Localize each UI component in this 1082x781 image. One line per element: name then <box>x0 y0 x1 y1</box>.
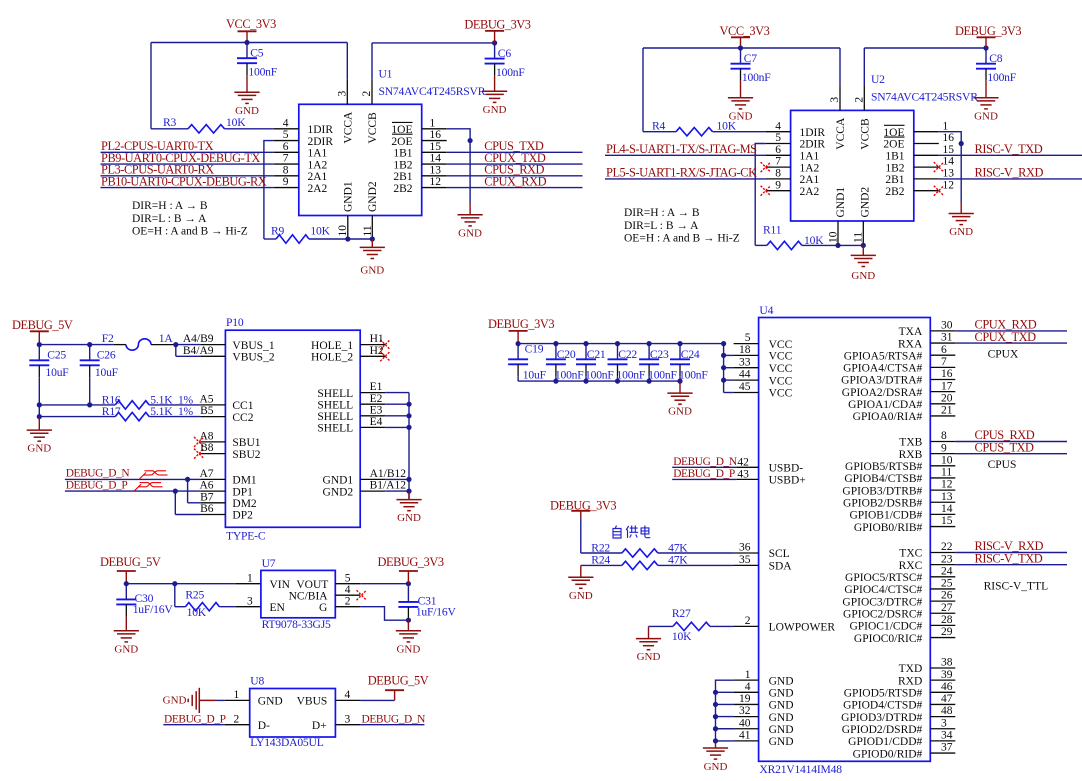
svg-text:D+: D+ <box>312 720 327 732</box>
capacitor C6 ground symbol <box>482 91 507 102</box>
resistor R3 <box>188 125 225 133</box>
svg-text:4: 4 <box>283 117 289 129</box>
wire VCC bus to stub <box>724 392 734 394</box>
wire VCC bus to stub <box>724 379 734 381</box>
svg-text:11: 11 <box>941 467 952 479</box>
pin 10 GND1 stub (U2) <box>837 221 839 245</box>
svg-text:GND: GND <box>163 695 187 707</box>
wire USBD- <box>672 466 736 468</box>
wire VCC_3V3 horizontal (U2) <box>643 47 840 49</box>
U1 right pin stub row5 <box>422 187 447 189</box>
pin 3 VCCA stub <box>346 79 348 104</box>
svg-text:CPUX: CPUX <box>988 349 1019 361</box>
svg-text:GND: GND <box>704 761 728 773</box>
svg-text:47: 47 <box>941 693 953 705</box>
svg-text:2: 2 <box>854 97 866 103</box>
GND lead (OE) <box>469 203 471 215</box>
svg-text:GND1: GND1 <box>835 187 847 218</box>
svg-text:2OE: 2OE <box>883 139 904 151</box>
svg-text:10K: 10K <box>187 606 207 619</box>
wire DM1 short <box>188 478 201 480</box>
svg-text:DEBUG_D_P: DEBUG_D_P <box>164 713 226 725</box>
svg-text:EN: EN <box>270 602 286 614</box>
power port DEBUG_3V3 (U1) <box>464 18 530 43</box>
no-connect pin 7 (U2) <box>761 162 771 172</box>
svg-text:RXB: RXB <box>899 449 923 461</box>
svg-text:GND1: GND1 <box>342 181 354 212</box>
svg-text:PB10-UART0-CPUX-DEBUG-RX: PB10-UART0-CPUX-DEBUG-RX <box>101 174 267 188</box>
svg-text:GPIOC0/RIC#: GPIOC0/RIC# <box>854 633 923 645</box>
svg-text:C21: C21 <box>587 348 606 361</box>
pin A1/B12 stub <box>360 478 385 480</box>
svg-text:100nF: 100nF <box>585 368 614 381</box>
svg-text:C6: C6 <box>498 47 512 60</box>
wire VCC_3V3 horizontal <box>151 42 347 44</box>
svg-text:23: 23 <box>941 553 953 565</box>
svg-text:GND: GND <box>668 406 692 418</box>
svg-text:C8: C8 <box>989 52 1003 65</box>
wire R16 to CC1 <box>149 404 200 406</box>
svg-text:H2: H2 <box>370 345 384 357</box>
svg-text:VCC: VCC <box>769 375 793 387</box>
svg-text:31: 31 <box>941 332 953 344</box>
capacitor C24 <box>670 344 708 382</box>
svg-text:C24: C24 <box>681 348 700 361</box>
wire GND to pin1 <box>216 699 225 701</box>
svg-text:1A2: 1A2 <box>800 162 820 174</box>
svg-text:22: 22 <box>941 541 953 553</box>
pin B4/A9 stub <box>200 355 225 357</box>
svg-text:100nF: 100nF <box>555 368 584 381</box>
ground (C31) <box>396 631 421 642</box>
power port DEBUG_5V (U7) <box>100 555 161 584</box>
wire VBUS to DEBUG_5V <box>360 699 394 701</box>
svg-text:5: 5 <box>345 572 351 584</box>
svg-text:C5: C5 <box>250 47 264 60</box>
svg-text:21: 21 <box>941 405 953 417</box>
svg-text:DEBUG_3V3: DEBUG_3V3 <box>378 555 444 569</box>
svg-text:VCCB: VCCB <box>367 112 379 144</box>
U1 left pin stub row2 <box>274 151 299 153</box>
svg-text:13: 13 <box>430 164 442 176</box>
IC U4 body <box>759 318 931 762</box>
svg-text:GND: GND <box>258 696 283 708</box>
svg-text:2A1: 2A1 <box>308 171 328 183</box>
wire net CPUX_RXD <box>447 187 583 189</box>
svg-text:7: 7 <box>775 156 781 168</box>
svg-text:DEBUG_5V: DEBUG_5V <box>368 673 429 687</box>
svg-text:OE=H : A and B → Hi-Z: OE=H : A and B → Hi-Z <box>624 233 740 245</box>
svg-text:19: 19 <box>739 693 751 705</box>
wire GND bus to stub <box>716 740 734 742</box>
svg-text:47K: 47K <box>668 554 688 567</box>
wire DEBUG_3V3 horizontal (U2) <box>864 47 986 49</box>
svg-text:SHELL: SHELL <box>317 423 353 435</box>
resistor R17 <box>115 412 149 420</box>
svg-text:VBUS_1: VBUS_1 <box>232 340 274 352</box>
pin 5 VOUT stub <box>335 583 360 585</box>
svg-text:32: 32 <box>739 705 751 717</box>
capacitor C21 <box>576 344 614 382</box>
ground (P10 shell) <box>396 500 421 511</box>
capacitor C20 <box>546 344 584 382</box>
junction GND bus <box>713 702 718 707</box>
power port VCC_3V3 (U1) <box>226 17 276 43</box>
svg-text:USBD+: USBD+ <box>769 475 806 487</box>
svg-text:B7: B7 <box>200 491 214 503</box>
wire net CPUS_RXD <box>447 175 583 177</box>
wire DEBUG_3V3 horizontal <box>372 42 495 44</box>
svg-text:15: 15 <box>430 141 442 153</box>
svg-text:20: 20 <box>941 392 953 404</box>
svg-text:13: 13 <box>943 168 955 180</box>
wire USBD+ <box>672 478 736 480</box>
svg-text:10: 10 <box>337 225 349 237</box>
svg-text:GPIOB5/RTSB#: GPIOB5/RTSB# <box>845 461 923 473</box>
svg-text:SBU1: SBU1 <box>232 437 260 449</box>
U2 right pin stub row1 <box>914 143 939 145</box>
svg-text:TXA: TXA <box>899 326 923 338</box>
wire R25 to EN <box>219 606 236 608</box>
power port DEBUG_3V3 (U4 VCC) <box>488 317 554 344</box>
wire DP1 to DP2 <box>174 491 176 514</box>
ground (U4 decoupling) <box>667 393 692 404</box>
svg-text:1B2: 1B2 <box>885 162 904 174</box>
svg-text:3: 3 <box>829 97 841 103</box>
ground (C25/C26) <box>27 430 52 441</box>
svg-text:38: 38 <box>941 657 953 669</box>
svg-text:VCCA: VCCA <box>835 117 847 150</box>
junction at C8 top <box>983 45 988 50</box>
U1 right pin stub row1 <box>422 140 447 142</box>
svg-text:SDA: SDA <box>769 561 793 573</box>
svg-text:5: 5 <box>745 332 751 344</box>
svg-text:100nF: 100nF <box>987 71 1016 84</box>
wire DP2 horiz <box>175 514 200 516</box>
junction DP1 <box>173 489 178 494</box>
diode U8 body <box>250 689 336 738</box>
U1 left pin stub row0 <box>274 128 299 130</box>
svg-text:R27: R27 <box>672 607 691 620</box>
svg-text:E2: E2 <box>370 393 383 405</box>
wire R9 to GND pins <box>309 238 372 240</box>
svg-text:11: 11 <box>852 232 864 243</box>
svg-text:1uF/16V: 1uF/16V <box>133 603 174 616</box>
svg-text:R17: R17 <box>102 405 121 418</box>
svg-text:VCC: VCC <box>769 351 793 363</box>
wire DEBUG_D_P (U8) <box>163 724 224 726</box>
svg-text:9: 9 <box>775 179 781 191</box>
wire R4 to pin 4 <box>713 131 766 133</box>
svg-text:GPIOB0/RIB#: GPIOB0/RIB# <box>854 522 923 534</box>
svg-text:TXC: TXC <box>899 548 922 560</box>
no-connect SBU2 <box>194 449 204 459</box>
svg-text:7: 7 <box>283 153 289 165</box>
VCC pin 44 stub <box>734 379 759 381</box>
junction GND bus <box>713 738 718 743</box>
wire VCC bus to stub <box>724 367 734 369</box>
wire GND bus to stub <box>716 703 734 705</box>
svg-text:GND: GND <box>769 700 794 712</box>
capacitor C6 <box>485 43 526 79</box>
svg-text:1B2: 1B2 <box>393 159 412 171</box>
wire GND bus to stub <box>716 716 734 718</box>
svg-text:5: 5 <box>283 129 289 141</box>
svg-text:1A1: 1A1 <box>800 151 820 163</box>
wire GND1 to bus <box>385 478 409 480</box>
VCC pin 5 stub <box>734 343 759 345</box>
U4 pin 23 stub <box>930 564 955 566</box>
svg-text:GPIOC4/CTSC#: GPIOC4/CTSC# <box>844 584 922 596</box>
wire R17 to CC2 <box>149 416 200 418</box>
svg-text:34: 34 <box>941 730 953 742</box>
differential pair mark (D_P) <box>135 483 163 491</box>
junction C23 top <box>647 341 652 346</box>
wire net PL2-CPUS-UART0-TX <box>101 151 274 153</box>
wire DEBUG_D_N (U8) <box>360 724 424 726</box>
svg-text:R22: R22 <box>591 541 610 554</box>
svg-text:DM1: DM1 <box>232 475 257 487</box>
wire R4 left vertical <box>642 48 644 132</box>
connector P10 body <box>225 330 360 527</box>
GND pin 4 stub <box>734 691 759 693</box>
svg-text:GND2: GND2 <box>367 181 379 212</box>
wire OE down to GND (U2) <box>960 144 962 203</box>
svg-text:39: 39 <box>941 669 953 681</box>
svg-text:F2: F2 <box>102 332 114 345</box>
svg-text:10: 10 <box>941 454 953 466</box>
svg-text:3: 3 <box>247 595 253 607</box>
wire R11 left <box>755 244 767 246</box>
pin 3 EN stub <box>236 606 261 608</box>
GND lead (P10 shell) <box>408 491 410 500</box>
svg-text:1: 1 <box>943 120 949 132</box>
svg-text:1A2: 1A2 <box>308 159 328 171</box>
capacitor C25 <box>29 345 69 405</box>
differential pair mark (D_N) <box>140 471 168 479</box>
svg-text:2B2: 2B2 <box>885 186 904 198</box>
svg-text:A6: A6 <box>199 480 213 492</box>
svg-text:CPUX_TXD: CPUX_TXD <box>975 330 1037 344</box>
svg-text:8: 8 <box>775 168 781 180</box>
svg-text:G: G <box>319 602 327 614</box>
junction GND bus <box>713 726 718 731</box>
junction at C7 top <box>738 45 743 50</box>
svg-text:GPIOC1/CDC#: GPIOC1/CDC# <box>849 621 922 633</box>
U2 right pin stub row4 <box>914 178 939 180</box>
svg-text:7: 7 <box>941 356 947 368</box>
wire R27 left <box>649 625 673 627</box>
svg-text:10uF: 10uF <box>46 366 70 379</box>
junction C24 top <box>677 341 682 346</box>
svg-text:TXB: TXB <box>899 437 922 449</box>
svg-text:TXD: TXD <box>899 663 923 675</box>
U4 pin 6 stub <box>930 354 955 356</box>
pin 42 stub <box>737 466 759 468</box>
U4 pin 7 stub <box>930 366 955 368</box>
regulator U7 body <box>261 570 335 617</box>
U2 right pin stub row0 <box>914 131 939 133</box>
pin 35 stub <box>734 564 759 566</box>
wire VCC bottom bus <box>518 380 680 382</box>
U2 left pin stub row0 <box>766 131 791 133</box>
junction GND2 (U2) <box>861 243 866 248</box>
U4 pin 39 stub <box>930 679 955 681</box>
wire pin2 up (U2) <box>863 48 865 85</box>
VCC pin 33 stub <box>734 367 759 369</box>
wire DEBUG_D_P <box>65 490 175 492</box>
ground (U1 pins 10-11) <box>360 247 385 258</box>
svg-text:GND: GND <box>769 712 794 724</box>
svg-text:R25: R25 <box>185 589 204 602</box>
op-amp U1 body <box>299 104 422 215</box>
GND lead (U2) <box>862 245 864 255</box>
U4 pin 31 stub <box>930 342 955 344</box>
pin 3 VCCA stub (U2) <box>839 85 841 110</box>
svg-text:VCC_3V3: VCC_3V3 <box>720 24 770 38</box>
wire net PB9-UART0-CPUX-DEBUG-TX <box>101 163 274 165</box>
svg-text:DEBUG_5V: DEBUG_5V <box>12 318 73 332</box>
svg-text:24: 24 <box>941 565 953 577</box>
pin H2 stub <box>360 355 385 357</box>
junction GND bus <box>713 690 718 695</box>
capacitor C5 ground lead <box>246 63 248 92</box>
pin 43 stub <box>737 478 759 480</box>
pin A5 stub <box>200 404 225 406</box>
junction C22 top <box>615 341 620 346</box>
svg-text:DEBUG_3V3: DEBUG_3V3 <box>955 24 1021 38</box>
svg-text:GND: GND <box>483 104 507 116</box>
svg-text:100nF: 100nF <box>679 368 708 381</box>
svg-text:CPUS: CPUS <box>988 459 1017 471</box>
wire VCC bus to stub <box>724 354 734 356</box>
U2 left pin stub row2 <box>766 154 791 156</box>
svg-text:2: 2 <box>234 713 240 725</box>
svg-text:16: 16 <box>941 368 953 380</box>
svg-text:GPIOA2/DSRA#: GPIOA2/DSRA# <box>842 387 923 399</box>
svg-text:8: 8 <box>283 164 289 176</box>
SHELL pin E1 stub <box>360 392 385 394</box>
resistor R16 <box>115 401 149 409</box>
pin 11 GND2 stub (U2) <box>862 221 864 245</box>
capacitor C7 ground lead <box>740 69 742 98</box>
wire net PL4-S-UART1-TX/S-JTAG-MS <box>605 154 766 156</box>
wire DEBUG_D_N <box>65 478 188 480</box>
svg-text:DIR=H : A → B: DIR=H : A → B <box>624 207 700 219</box>
svg-text:27: 27 <box>941 602 953 614</box>
svg-text:RXD: RXD <box>898 675 922 687</box>
svg-text:16: 16 <box>430 129 442 141</box>
wire 1OE to 2OE corner (U2) <box>939 132 961 144</box>
svg-text:RT9078-33GJ5: RT9078-33GJ5 <box>262 618 331 631</box>
U1 right pin stub row2 <box>422 151 447 153</box>
svg-text:10: 10 <box>828 231 840 243</box>
svg-text:4: 4 <box>345 584 351 596</box>
no-connect pin 14 (U2) <box>934 162 944 172</box>
wire R24 left <box>581 564 622 566</box>
wire pin2 up <box>371 43 373 79</box>
junction E3 <box>406 413 411 418</box>
wire GND bus corner <box>716 680 734 742</box>
wire R24 to SDA <box>658 564 734 566</box>
svg-text:VBUS: VBUS <box>297 696 328 708</box>
svg-text:1DIR: 1DIR <box>800 127 826 139</box>
svg-text:GPIOA5/RTSA#: GPIOA5/RTSA# <box>844 350 923 362</box>
junction VCC bus <box>721 365 726 370</box>
pin 11 GND2 stub <box>371 216 373 240</box>
U4 pin 17 stub <box>930 391 955 393</box>
svg-text:10uF: 10uF <box>523 368 547 381</box>
svg-text:2B1: 2B1 <box>393 171 412 183</box>
svg-text:GND: GND <box>949 226 973 238</box>
svg-text:1B1: 1B1 <box>393 148 412 160</box>
svg-text:GND2: GND2 <box>859 187 871 218</box>
capacitor C8 <box>976 48 1017 84</box>
wire GND2 to bus <box>385 490 409 492</box>
VCC pin 18 stub <box>734 354 759 356</box>
svg-text:2DIR: 2DIR <box>800 139 826 151</box>
junction GND1 (U2) <box>835 243 840 248</box>
svg-text:DEBUG_D_N: DEBUG_D_N <box>673 456 737 468</box>
pin 4 stub (U8) <box>335 699 360 701</box>
U4 pin 26 stub <box>930 600 955 602</box>
svg-text:RISC-V_TXD: RISC-V_TXD <box>975 551 1043 565</box>
svg-text:4: 4 <box>345 689 351 701</box>
wire R25 vertical <box>174 584 176 607</box>
pin 3 stub (U8) <box>335 724 360 726</box>
wire pin3 up (U2) <box>839 48 841 85</box>
junction C31 bottom <box>406 618 411 623</box>
svg-text:SN74AVC4T245RSVR: SN74AVC4T245RSVR <box>871 91 978 104</box>
junction VBUS split <box>173 342 178 347</box>
svg-text:DIR=H : A → B: DIR=H : A → B <box>132 200 208 212</box>
junction C20 bottom <box>553 379 558 384</box>
power port DEBUG_5V (U8) <box>368 673 429 700</box>
svg-text:2DIR: 2DIR <box>308 136 334 148</box>
junction GND bus <box>713 714 718 719</box>
no-connect pin 12 (U2) <box>934 186 944 196</box>
svg-text:B5: B5 <box>200 405 214 417</box>
svg-text:3: 3 <box>941 717 947 729</box>
svg-text:40: 40 <box>739 717 751 729</box>
ground (U2 OE) <box>949 214 974 225</box>
GND lead (C31) <box>407 620 409 631</box>
svg-text:GND2: GND2 <box>323 486 354 498</box>
svg-text:GND: GND <box>360 265 384 277</box>
wire DP1 short <box>175 490 200 492</box>
U2 left pin stub row1 <box>766 143 791 145</box>
VCC pin 45 stub <box>734 392 759 394</box>
svg-text:3: 3 <box>336 91 348 97</box>
no-connect SBU1 <box>194 437 204 447</box>
U4 pin 27 stub <box>930 612 955 614</box>
U2 left pin stub row5 <box>766 190 791 192</box>
fuse F2 right pin <box>151 344 176 346</box>
U4 pin 21 stub <box>930 415 955 417</box>
svg-text:1B1: 1B1 <box>885 151 904 163</box>
svg-text:DEBUG_3V3: DEBUG_3V3 <box>550 498 616 512</box>
wire DM2 horiz <box>188 502 201 504</box>
wire R22 to SCL <box>658 552 734 554</box>
svg-text:GPIOB3/DTRB#: GPIOB3/DTRB# <box>842 485 922 497</box>
GND lead (R27) <box>648 626 650 638</box>
capacitor C8 ground lead <box>985 69 987 98</box>
svg-text:GND: GND <box>397 512 421 524</box>
wire R3 left <box>151 128 188 130</box>
U4 pin 16 stub <box>930 379 955 381</box>
junction C22 bottom <box>615 379 620 384</box>
power port VCC_3V3 (U2) <box>720 24 770 48</box>
